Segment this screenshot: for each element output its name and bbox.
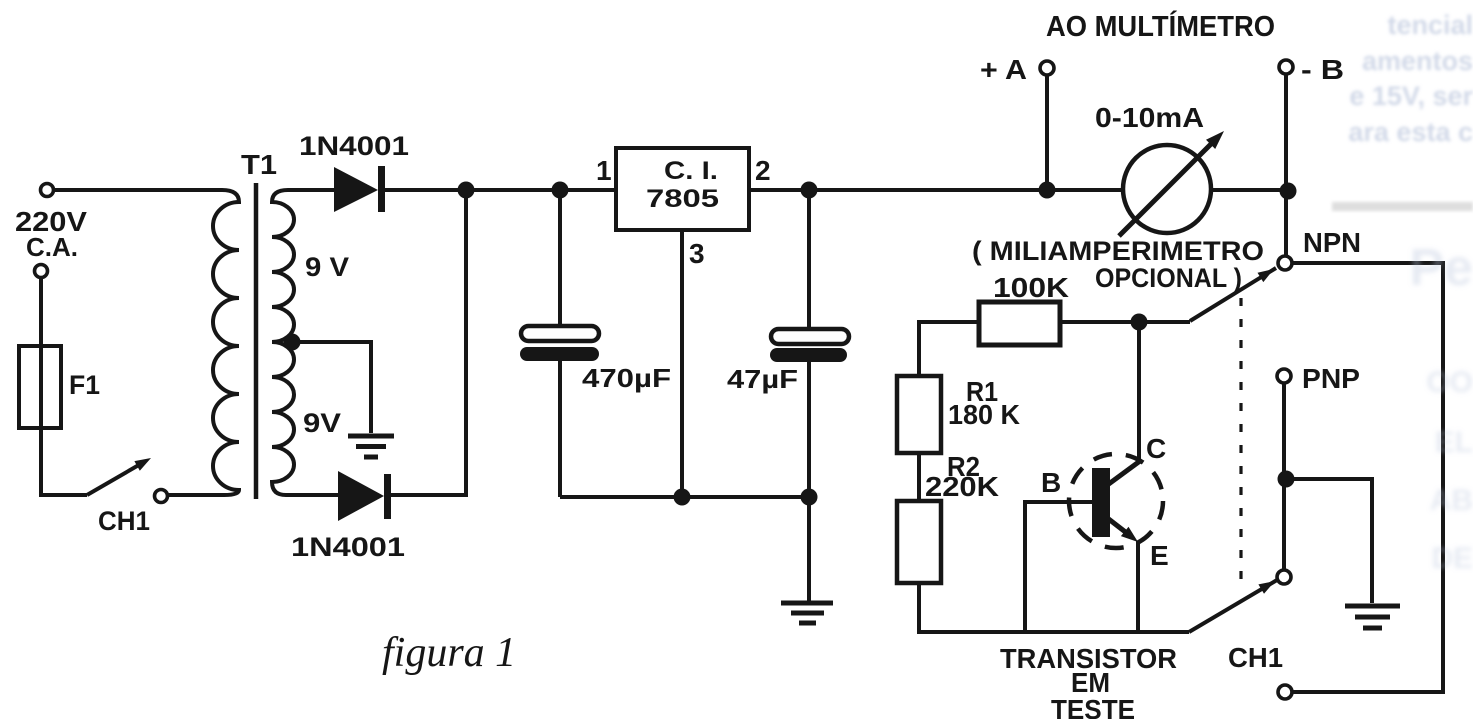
junction C1 (552, 182, 569, 199)
terminal PNP (1277, 369, 1291, 383)
svg-text:C: C (1146, 433, 1166, 464)
svg-text:2: 2 (755, 155, 771, 186)
junction collector node (1131, 314, 1148, 331)
svg-text:T1: T1 (241, 149, 277, 180)
capacitor C2 top plate (771, 329, 849, 344)
svg-text:AO MULTÍMETRO: AO MULTÍMETRO (1046, 9, 1275, 43)
svg-text:C.A.: C.A. (26, 232, 78, 262)
transistor Q1 collector lead (1106, 461, 1140, 486)
svg-text:47µF: 47µF (727, 364, 798, 394)
svg-text:PNP: PNP (1302, 363, 1360, 394)
junction PNP ground branch (1278, 471, 1295, 488)
svg-text:180 K: 180 K (948, 399, 1020, 430)
diode D2 1N4001 lower (338, 471, 384, 521)
junction meter output (1280, 183, 1297, 200)
ground rail bottom of caps (560, 495, 809, 499)
svg-text:amentos: amentos (1362, 46, 1473, 76)
svg-text:AB: AB (1430, 484, 1473, 517)
transistor Q1 emitter lead (1106, 517, 1128, 534)
wire top-left input to transformer primary with coil (54, 190, 239, 495)
svg-text:+ A: + A (980, 54, 1027, 85)
input terminal lower (35, 265, 48, 278)
svg-text:9 V: 9 V (305, 252, 349, 282)
junction C2 ground (801, 489, 818, 506)
resistor R2 (897, 501, 941, 583)
center tap wire to ground (292, 342, 371, 433)
resistor 100K wires (919, 322, 1190, 376)
svg-text:B: B (1041, 467, 1061, 498)
wire NPN loop right side (1290, 263, 1443, 692)
svg-text:470µF: 470µF (582, 363, 671, 393)
capacitor C2 47uF leads (807, 190, 811, 497)
capacitor C2 bottom plate (770, 348, 847, 362)
ground stem main (807, 497, 811, 601)
junction rectifier output (458, 182, 475, 199)
wire R2 to bottom rail (919, 583, 1189, 632)
switch CH1b lower arm (1189, 580, 1277, 632)
svg-text:tencial: tencial (1387, 10, 1473, 40)
wire emitter down (1136, 541, 1140, 632)
switch CH1b upper arm (1190, 268, 1276, 321)
svg-text:Pe: Pe (1409, 239, 1473, 297)
dashed link line (1239, 298, 1242, 585)
page bleed-through artifacts right edge (1348, 10, 1473, 147)
fuse F1 (19, 346, 61, 428)
svg-text:( MILIAMPERIMETRO: ( MILIAMPERIMETRO (972, 236, 1264, 266)
terminal NPN (1278, 256, 1292, 270)
wire to right ground (1286, 479, 1372, 603)
op IC regulator U1 7805 (616, 148, 749, 230)
svg-text:TESTE: TESTE (1051, 694, 1135, 719)
svg-text:1: 1 (596, 155, 612, 186)
svg-text:ara esta c: ara esta c (1348, 117, 1473, 147)
wire terminal A down (1045, 75, 1049, 190)
svg-text:F1: F1 (69, 370, 100, 400)
capacitor C1 470uF leads (558, 190, 562, 497)
input terminal upper (41, 184, 54, 197)
ground main (781, 603, 833, 623)
meter M1 circle (1123, 145, 1211, 233)
terminal bottom common (1278, 685, 1292, 699)
svg-text:0-10mA: 0-10mA (1095, 102, 1204, 133)
svg-text:100K: 100K (993, 272, 1069, 303)
junction A (1039, 182, 1056, 199)
svg-text:3: 3 (689, 238, 705, 269)
svg-text:DE: DE (1431, 542, 1473, 575)
svg-text:e 15V, ser: e 15V, ser (1349, 81, 1473, 111)
transformer T1 core (254, 183, 259, 499)
junction pin3 ground (674, 489, 691, 506)
transistor Q1 base bar (1092, 468, 1110, 537)
capacitor C1 bottom plate (520, 347, 599, 361)
wire R1 to R2 (917, 453, 921, 501)
wire collector up (1137, 322, 1141, 461)
svg-text:C. I.: C. I. (664, 157, 718, 185)
svg-text:EL: EL (1435, 426, 1473, 459)
terminal -B (1279, 60, 1293, 74)
wire PNP to switch contact (1282, 383, 1286, 570)
svg-text:E: E (1150, 540, 1169, 571)
ground center tap (348, 436, 394, 457)
resistor 100K (979, 302, 1060, 345)
wire regulator output rail (749, 188, 1288, 192)
switch CH1b contact (1277, 570, 1291, 584)
wire diode D1 to regulator input (385, 188, 616, 192)
wire diode D2 to junction (390, 190, 466, 495)
svg-text:CH1: CH1 (1228, 642, 1283, 673)
svg-text:figura 1: figura 1 (382, 630, 516, 676)
svg-text:1N4001: 1N4001 (291, 532, 405, 562)
svg-text:OPCIONAL ): OPCIONAL ) (1095, 263, 1242, 293)
transformer secondary winding (272, 190, 340, 495)
svg-text:7805: 7805 (646, 185, 719, 213)
meter arrow (1119, 144, 1211, 236)
wire base branch (1025, 502, 1092, 632)
junction C2 (801, 182, 818, 199)
ground right (1345, 606, 1400, 628)
svg-text:220K: 220K (925, 471, 999, 502)
pin 3 wire (680, 230, 684, 497)
wire terminal B down to NPN (1284, 74, 1288, 263)
svg-text:1N4001: 1N4001 (299, 131, 409, 161)
switch CH1 arm (87, 462, 144, 495)
transistor Q1 dashed circle (1069, 454, 1163, 548)
resistor R1 (897, 376, 941, 453)
capacitor C1 top plate (521, 326, 599, 341)
svg-text:OO: OO (1426, 366, 1473, 399)
wire regulator input rail (466, 188, 616, 192)
diode D1 1N4001 upper (334, 167, 378, 212)
switch CH1 contact (155, 490, 168, 503)
wire input to fuse and switch (41, 278, 87, 495)
svg-text:- B: - B (1301, 54, 1344, 85)
svg-text:9V: 9V (303, 408, 341, 438)
svg-text:NPN: NPN (1303, 227, 1361, 258)
svg-text:CH1: CH1 (98, 506, 150, 536)
center tap junction (284, 334, 301, 351)
